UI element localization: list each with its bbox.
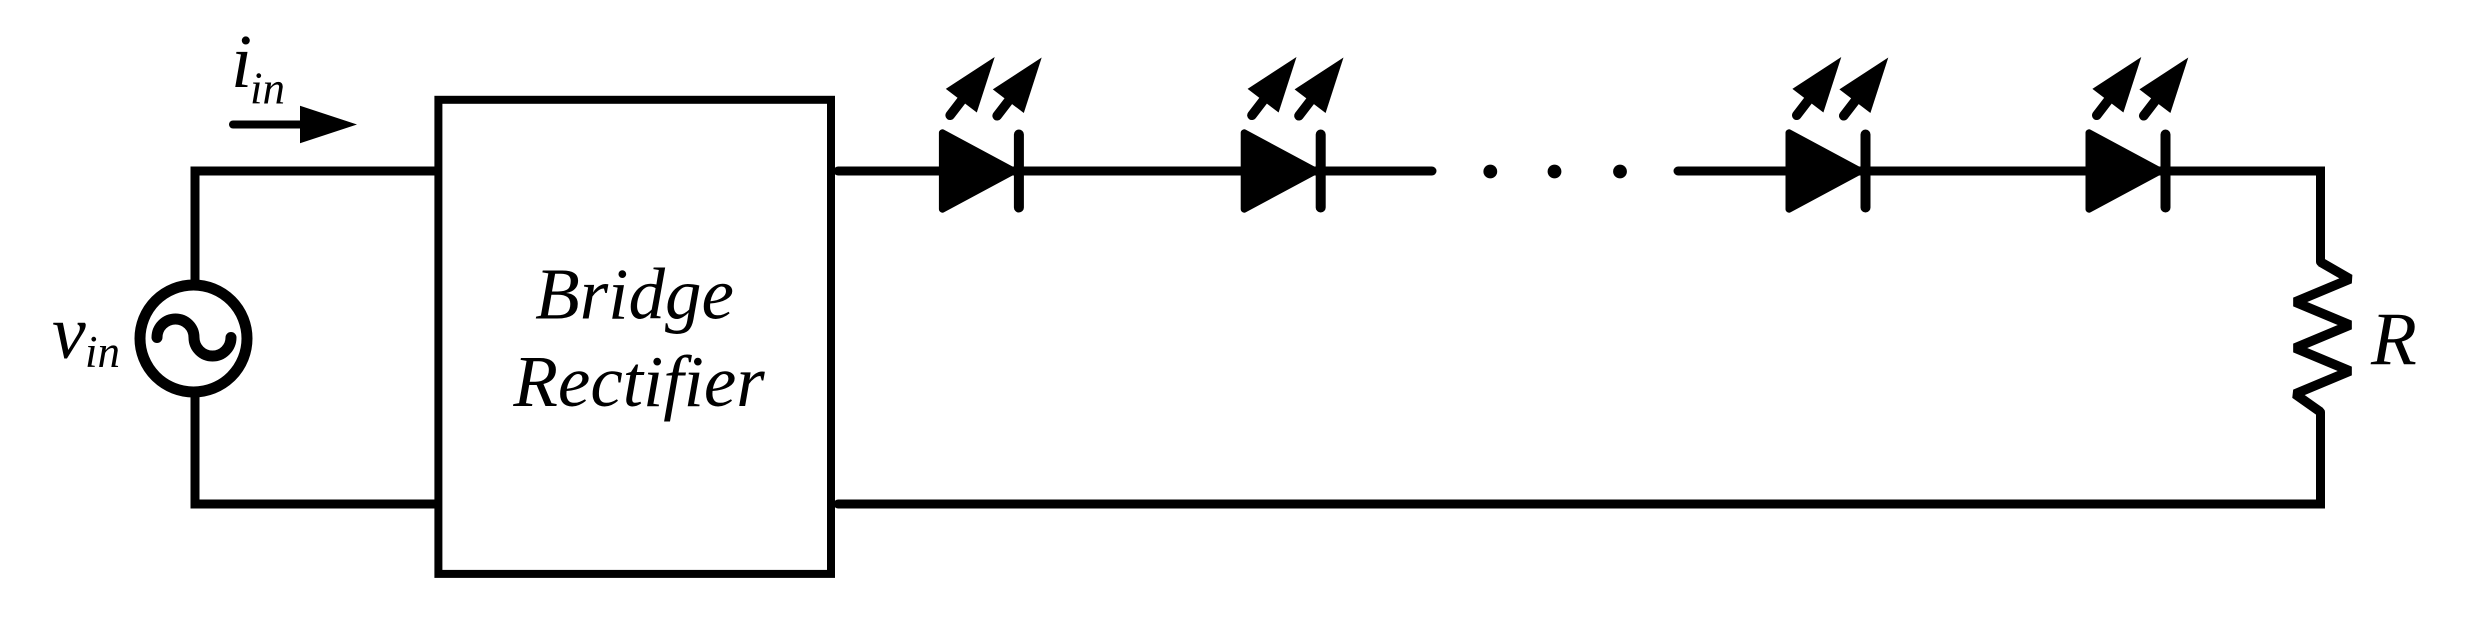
svg-text:in: in [250, 64, 285, 114]
svg-text:v: v [52, 291, 86, 375]
svg-text:in: in [85, 327, 120, 377]
svg-text:i: i [231, 20, 252, 104]
svg-text:R: R [2370, 298, 2417, 381]
svg-text:Rectifier: Rectifier [512, 341, 765, 422]
svg-text:Bridge: Bridge [535, 254, 734, 335]
